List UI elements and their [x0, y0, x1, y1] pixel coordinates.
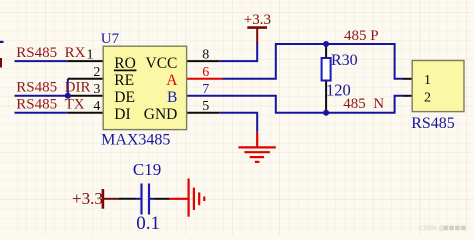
- svg-text:C19: C19: [133, 160, 161, 179]
- svg-text:5: 5: [202, 99, 209, 114]
- svg-text:6: 6: [202, 65, 209, 80]
- svg-text:120: 120: [326, 80, 351, 99]
- svg-text:1: 1: [424, 73, 431, 88]
- svg-text:U7: U7: [101, 31, 120, 47]
- svg-text:RS485: RS485: [411, 115, 455, 132]
- svg-text:485 P: 485 P: [344, 28, 379, 44]
- svg-text:RS485 TX: RS485 TX: [16, 96, 85, 112]
- svg-text:2: 2: [93, 65, 100, 80]
- svg-text:4: 4: [93, 99, 100, 114]
- svg-text:MAX3485: MAX3485: [101, 132, 170, 149]
- svg-text:+3.3: +3.3: [72, 189, 103, 208]
- svg-text:RE: RE: [114, 72, 134, 89]
- svg-text:7: 7: [202, 82, 209, 97]
- svg-text:CSDN @: CSDN @: [419, 225, 445, 232]
- svg-text:RO: RO: [114, 55, 136, 72]
- svg-text:B: B: [167, 89, 177, 106]
- svg-text:A: A: [166, 72, 178, 89]
- svg-text:DI: DI: [114, 106, 130, 123]
- svg-text:1: 1: [87, 47, 94, 62]
- svg-text:3: 3: [93, 82, 100, 97]
- svg-text:R30: R30: [331, 52, 358, 69]
- svg-text:2: 2: [424, 90, 431, 105]
- svg-text:VCC: VCC: [146, 55, 178, 72]
- svg-text:DE: DE: [114, 89, 135, 106]
- svg-text:RS485 DIR: RS485 DIR: [16, 80, 90, 96]
- svg-text:0.1: 0.1: [136, 213, 160, 234]
- svg-text:8: 8: [202, 47, 209, 62]
- svg-text:RS485 RX: RS485 RX: [16, 45, 85, 61]
- svg-text:+3.3: +3.3: [244, 12, 271, 28]
- svg-text:GND: GND: [144, 106, 178, 123]
